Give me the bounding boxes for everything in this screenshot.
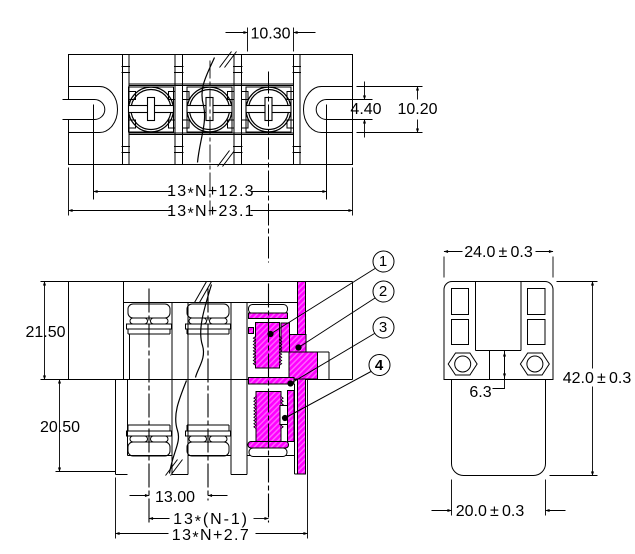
svg-text:13*N+12.3: 13*N+12.3 [167, 183, 255, 203]
svg-text:1: 1 [379, 253, 387, 270]
svg-text:13*N+23.1: 13*N+23.1 [167, 203, 255, 223]
svg-text:4: 4 [375, 357, 384, 374]
svg-text:42.0 ± 0.3: 42.0 ± 0.3 [563, 370, 632, 387]
svg-text:10.30: 10.30 [250, 26, 290, 43]
svg-text:13*N+2.7: 13*N+2.7 [172, 527, 250, 547]
svg-text:6.3: 6.3 [469, 384, 491, 401]
svg-text:24.0 ± 0.3: 24.0 ± 0.3 [464, 244, 533, 261]
svg-text:3: 3 [379, 319, 387, 336]
svg-text:10.20: 10.20 [397, 101, 437, 118]
svg-text:21.50: 21.50 [25, 324, 65, 341]
svg-text:2: 2 [379, 283, 387, 300]
svg-text:13.00: 13.00 [155, 489, 195, 506]
svg-text:20.50: 20.50 [40, 419, 80, 436]
svg-text:20.0 ± 0.3: 20.0 ± 0.3 [456, 503, 525, 520]
svg-text:4.40: 4.40 [350, 101, 381, 118]
